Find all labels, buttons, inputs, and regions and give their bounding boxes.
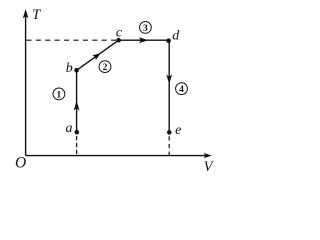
point b <box>74 68 79 73</box>
process 4 line d to e <box>166 40 172 132</box>
circled number 2 <box>99 61 111 73</box>
svg-text:V: V <box>204 159 215 175</box>
dashed isotherm line at T_c from axis to c <box>27 39 119 41</box>
circled number 3 <box>140 22 152 34</box>
svg-text:3: 3 <box>143 24 148 34</box>
svg-text:2: 2 <box>103 63 108 73</box>
svg-text:d: d <box>172 28 180 43</box>
process 3 line c to d <box>119 37 169 43</box>
dashed vertical below a <box>76 136 78 155</box>
svg-text:1: 1 <box>57 90 62 100</box>
process 1 line a to b <box>74 70 80 132</box>
point c <box>116 38 121 43</box>
point d <box>166 38 171 43</box>
svg-text:T: T <box>32 7 41 23</box>
svg-text:b: b <box>66 61 73 76</box>
V axis <box>26 153 212 158</box>
dashed vertical below e <box>168 136 170 155</box>
circled number 4 <box>176 83 188 95</box>
svg-text:e: e <box>175 123 181 138</box>
svg-text:O: O <box>15 155 26 172</box>
svg-text:c: c <box>116 25 123 40</box>
circled number 1 <box>53 88 65 100</box>
process 2 line b to c <box>77 40 119 70</box>
point e <box>167 130 172 135</box>
svg-text:4: 4 <box>179 85 184 95</box>
svg-text:a: a <box>66 121 73 136</box>
point a <box>75 130 80 135</box>
T axis <box>23 9 29 156</box>
